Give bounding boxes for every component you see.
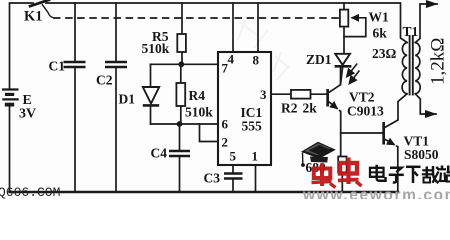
svg-text:C1: C1 <box>49 59 66 74</box>
svg-text:www.eeworm.com: www.eeworm.com <box>302 187 450 199</box>
svg-text:S8050: S8050 <box>404 147 439 162</box>
svg-text:3: 3 <box>260 87 267 102</box>
svg-text:1,2kΩ: 1,2kΩ <box>428 38 449 85</box>
svg-text:ZD1: ZD1 <box>306 52 332 67</box>
svg-text:6: 6 <box>222 117 229 132</box>
svg-text:5: 5 <box>230 149 237 164</box>
svg-text:8: 8 <box>253 53 260 68</box>
svg-text:4: 4 <box>228 52 235 67</box>
svg-text:D1: D1 <box>119 92 136 107</box>
svg-text:W1: W1 <box>369 10 390 25</box>
svg-text:R4: R4 <box>189 88 206 103</box>
svg-text:T1: T1 <box>403 24 419 39</box>
svg-text:C9013: C9013 <box>347 104 384 119</box>
svg-text:K1: K1 <box>24 9 43 25</box>
svg-text:3V: 3V <box>19 107 36 122</box>
svg-text:23Ω: 23Ω <box>372 46 397 61</box>
svg-text:555: 555 <box>242 119 263 134</box>
svg-text:510k: 510k <box>142 41 170 56</box>
svg-text:C2: C2 <box>96 73 113 88</box>
svg-text:1: 1 <box>252 149 259 164</box>
svg-text:2k: 2k <box>303 101 318 116</box>
svg-text:6k: 6k <box>373 26 388 41</box>
svg-text:510k: 510k <box>185 105 213 120</box>
svg-text:C3: C3 <box>204 171 221 186</box>
svg-text:C4: C4 <box>151 146 168 161</box>
svg-text:2: 2 <box>222 135 229 150</box>
svg-text:R2: R2 <box>281 101 298 116</box>
svg-text:Q606.COM: Q606.COM <box>0 185 60 199</box>
svg-text:VT2: VT2 <box>349 90 375 105</box>
